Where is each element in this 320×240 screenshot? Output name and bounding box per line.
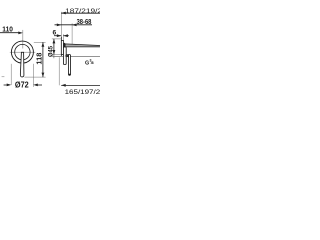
lever rod side bbox=[69, 55, 71, 76]
svg-text:Ø45: Ø45 bbox=[47, 45, 54, 57]
spout base block bbox=[63, 43, 65, 47]
vertical centerline bbox=[22, 30, 24, 49]
svg-text:110: 110 bbox=[2, 25, 13, 34]
dim 165/197/227 line bbox=[61, 84, 100, 86]
Ø45 bottom tick bbox=[52, 54, 61, 56]
dim 6 left line+arrow bbox=[54, 35, 61, 37]
extension line plate front bbox=[62, 34, 64, 40]
dim 6 right line+arrow bbox=[63, 35, 68, 37]
lever handle front bbox=[20, 52, 24, 77]
dim 38-68 line bbox=[55, 24, 93, 26]
dim 187/219/249 arrow bbox=[61, 12, 66, 15]
Ø45 dim tail bbox=[53, 55, 55, 59]
dim 118 top arrow bbox=[42, 42, 45, 47]
svg-text:118: 118 bbox=[37, 52, 44, 64]
dim 110 arrow bbox=[18, 32, 23, 35]
dim 38-68 right arrow bbox=[72, 24, 77, 27]
dim 118 line bbox=[42, 42, 44, 77]
svg-text:187/219/249: 187/219/249 bbox=[65, 8, 100, 15]
extension line wall face top bbox=[60, 12, 62, 40]
dim 187/219/249 line bbox=[61, 12, 100, 14]
Ø45 top arrow bbox=[53, 39, 56, 44]
extension line 38-68 right bbox=[71, 23, 73, 45]
G3/8 leader line bbox=[53, 55, 100, 57]
Ø45 top tick bbox=[52, 38, 61, 40]
svg-text:165/197/227: 165/197/227 bbox=[65, 89, 100, 96]
bottom dim extension line bbox=[58, 57, 60, 85]
spout bbox=[65, 44, 101, 47]
escutcheon plate side bbox=[61, 40, 63, 54]
dim 118 bottom arrow bbox=[42, 73, 45, 78]
Ø72 left extension line bbox=[10, 64, 12, 85]
body column bbox=[63, 47, 66, 65]
svg-text:Ø72: Ø72 bbox=[15, 80, 29, 89]
Ø72 right extension line bbox=[32, 64, 34, 87]
outer circle (escutcheon Ø72) bbox=[11, 41, 33, 63]
dim 118 top tick bbox=[34, 41, 46, 43]
arm bbox=[66, 55, 68, 56]
svg-text:/8: /8 bbox=[91, 61, 94, 65]
dim 165/197/227 arrow bbox=[61, 84, 65, 87]
Ø45 bottom arrow bbox=[53, 50, 56, 55]
lever rod dark tip bbox=[69, 74, 71, 76]
Ø72 right arrow bbox=[37, 84, 42, 86]
dim 110 line bbox=[0, 32, 19, 34]
Ø45 dim line bbox=[53, 39, 55, 55]
G3/8 leader arrow bbox=[64, 55, 69, 58]
Ø72 left arrow bbox=[4, 84, 8, 86]
wall line bbox=[60, 37, 62, 56]
left edge tick stub bbox=[2, 76, 5, 78]
dim 118 bottom tick bbox=[25, 76, 46, 78]
inner circle bbox=[15, 44, 30, 59]
dim 38-68 left arrow bbox=[57, 24, 62, 27]
horizontal centerline bbox=[10, 51, 36, 53]
